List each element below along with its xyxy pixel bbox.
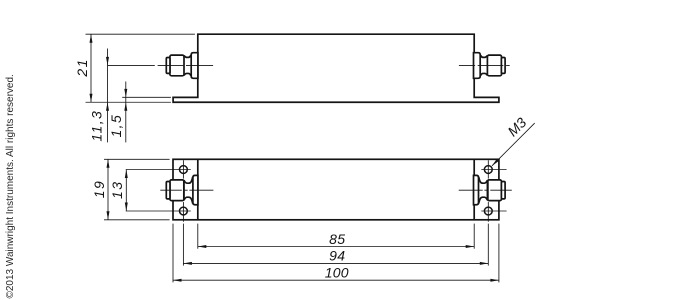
dimension 19 extension top — [104, 158, 170, 160]
enclosure side outline with mounting tabs — [173, 34, 499, 102]
hole center mark top-left / 13 extension — [126, 169, 191, 171]
dimension 1,5 line — [125, 82, 127, 143]
extension line hole right — [487, 224, 489, 266]
center line right connector (plan) — [459, 189, 512, 191]
svg-text:©2013 Wainwright Instruments.: ©2013 Wainwright Instruments. All rights… — [5, 74, 16, 298]
extension line wall left — [197, 224, 199, 249]
extension line wall right — [473, 224, 475, 249]
extension line flange right — [498, 224, 500, 283]
connector neck bottom profile — [184, 73, 191, 75]
left wall edge — [197, 159, 199, 220]
enclosure plan outline — [173, 159, 499, 220]
svg-text:21: 21 — [74, 58, 90, 77]
extension line hole left — [182, 224, 184, 266]
dimension 13 line — [125, 170, 127, 212]
left SMA connector (plan view) — [166, 175, 198, 204]
connector tip cap — [166, 182, 170, 199]
hole axis line left — [182, 160, 184, 222]
connector base flange — [191, 53, 198, 79]
left SMA connector (side view) — [166, 53, 198, 79]
dimension 19 line — [107, 159, 109, 220]
connector coupling nut — [170, 180, 184, 201]
hole center mark top-right — [481, 169, 506, 171]
extension line top edge — [86, 33, 195, 35]
center line right connector (top view) — [459, 64, 510, 66]
mounting hole top-right — [484, 166, 492, 174]
M3 leader line — [492, 123, 535, 166]
svg-text:94: 94 — [329, 248, 345, 264]
center line left connector (plan) — [160, 189, 213, 191]
dimension 100 line — [173, 279, 499, 281]
right SMA connector (plan view, mirrored) — [474, 175, 506, 204]
dimension 19 extension bottom — [104, 219, 170, 221]
mounting hole top-left — [180, 166, 188, 174]
dimension 85 line — [198, 246, 474, 248]
connector coupling nut — [170, 55, 184, 76]
extension line flange left — [172, 224, 174, 283]
connector tip cap — [166, 58, 170, 74]
svg-text:85: 85 — [329, 231, 345, 247]
mounting hole bottom-left — [180, 207, 188, 215]
svg-text:11,3: 11,3 — [89, 110, 105, 142]
mounting hole bottom-right — [484, 207, 492, 215]
dimension 21 line — [90, 34, 92, 102]
hole center mark bottom-left / 13 extension — [126, 210, 191, 212]
svg-text:13: 13 — [109, 181, 125, 199]
connector neck bottom profile — [184, 197, 193, 203]
center line left connector (top view) — [108, 64, 214, 66]
connector neck top profile — [184, 177, 193, 183]
svg-text:19: 19 — [91, 180, 107, 198]
dimension 94 line — [183, 262, 488, 264]
extension line flange top — [122, 96, 171, 98]
hole center mark bottom-right — [481, 210, 506, 212]
connector neck top profile — [184, 55, 191, 57]
dimension 11,3 line — [107, 49, 109, 143]
svg-text:100: 100 — [325, 265, 349, 281]
hole axis line right — [487, 160, 489, 222]
connector base flange — [193, 175, 198, 204]
right SMA connector (side view, mirrored) — [474, 53, 506, 79]
extension line flange bottom — [86, 101, 171, 103]
right wall edge — [473, 159, 475, 220]
svg-text:1,5: 1,5 — [108, 114, 124, 138]
